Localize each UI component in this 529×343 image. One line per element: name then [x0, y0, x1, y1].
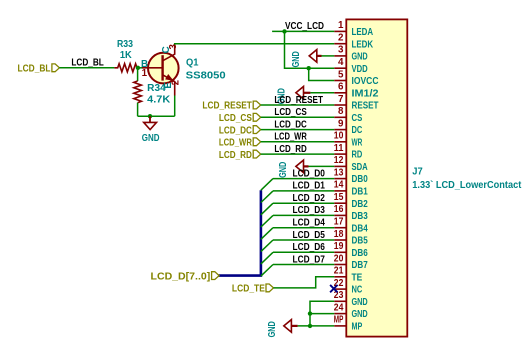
wire R34 to rail	[137, 103, 139, 117]
wire GND arrow to pin 6	[310, 92, 334, 94]
svg-text:GND: GND	[267, 321, 278, 337]
svg-text:GND: GND	[278, 162, 289, 178]
svg-text:RD: RD	[352, 150, 363, 161]
transistor Q1 body circle	[148, 53, 179, 84]
wire LCD_DC to pin 9	[261, 129, 335, 131]
svg-text:TE: TE	[352, 272, 363, 283]
Q1 base pin	[142, 67, 163, 69]
svg-text:12: 12	[334, 155, 344, 166]
svg-text:GND: GND	[352, 52, 368, 63]
power symbol GND (pin 12)	[296, 160, 304, 173]
svg-text:RESET: RESET	[352, 101, 379, 112]
svg-text:DB2: DB2	[352, 199, 369, 210]
svg-text:DB7: DB7	[352, 260, 369, 271]
svg-text:23: 23	[334, 290, 344, 301]
pin 24 (GND) stub	[334, 313, 346, 315]
power symbol GND (bottom left)	[284, 320, 292, 333]
svg-text:LCD_D4: LCD_D4	[293, 218, 326, 229]
svg-text:LCD_CS: LCD_CS	[219, 113, 252, 124]
wire pin 23	[310, 301, 334, 326]
wire base node down to R34	[137, 68, 139, 81]
bus entry LCD_D6	[261, 252, 273, 264]
svg-text:5: 5	[338, 69, 344, 80]
svg-text:MP: MP	[334, 315, 344, 326]
pin 23 (GND) stub	[334, 300, 346, 302]
wire LCD_D0 to pin 13	[273, 178, 334, 180]
svg-text:19: 19	[334, 241, 344, 252]
pin 9 (DC) stub	[334, 129, 346, 131]
svg-text:15: 15	[334, 192, 344, 203]
power symbol GND (below Q1)	[149, 116, 151, 122]
svg-text:LEDA: LEDA	[352, 27, 374, 38]
junction base node	[136, 66, 140, 70]
wire VCC drop to pin 4	[285, 31, 335, 68]
pin 11 (RD) stub	[334, 153, 346, 155]
svg-text:LCD_TE: LCD_TE	[232, 284, 265, 295]
svg-text:3: 3	[168, 44, 179, 50]
pin 5 (IOVCC) stub	[334, 80, 346, 82]
svg-text:18: 18	[334, 229, 344, 240]
svg-text:LCD_RD: LCD_RD	[274, 144, 306, 155]
Q1 emitter arrow	[165, 74, 174, 81]
svg-text:LCD_RESET: LCD_RESET	[274, 95, 323, 106]
svg-text:GND: GND	[291, 51, 302, 67]
wire LCD_D5 to pin 18	[273, 239, 334, 241]
wire LCD_TE to pin 21	[274, 277, 335, 288]
wire LCD_RESET to pin 7	[261, 104, 335, 106]
svg-text:LCD_D6: LCD_D6	[293, 242, 326, 253]
svg-text:DB5: DB5	[352, 236, 369, 247]
svg-text:LCD_WR: LCD_WR	[219, 138, 252, 149]
wire LCD_D2 to pin 15	[273, 202, 334, 204]
svg-text:GND: GND	[352, 297, 368, 308]
svg-text:IM1/2: IM1/2	[352, 88, 380, 99]
svg-text:Q1: Q1	[186, 58, 199, 69]
svg-text:LCD_D0: LCD_D0	[293, 168, 326, 179]
svg-text:LCD_RESET: LCD_RESET	[202, 101, 252, 112]
wire VCC_LCD to pin 1	[272, 30, 334, 32]
svg-text:LCD_D3: LCD_D3	[293, 205, 326, 216]
pin 10 (WR) stub	[334, 141, 346, 143]
svg-text:LCD_DC: LCD_DC	[274, 119, 306, 130]
junction MP	[308, 324, 312, 328]
bus entry LCD_D7	[261, 265, 273, 277]
svg-text:SS8050: SS8050	[186, 71, 227, 82]
wire LCD_D7 to pin 20	[273, 264, 334, 266]
svg-text:1: 1	[142, 68, 148, 79]
pin 4 (VDD) stub	[334, 67, 346, 69]
svg-text:10: 10	[334, 131, 344, 142]
svg-text:DB0: DB0	[352, 174, 369, 185]
wire LCD_RD to pin 11	[261, 153, 335, 155]
pin 14 (DB1) stub	[334, 190, 346, 192]
svg-text:6: 6	[338, 82, 344, 93]
svg-text:LCD_DC: LCD_DC	[219, 125, 252, 136]
svg-text:4: 4	[338, 57, 344, 68]
svg-text:LCD_D2: LCD_D2	[293, 193, 326, 204]
svg-text:SDA: SDA	[352, 162, 368, 173]
wire base node to Q1	[138, 67, 142, 69]
power symbol GND (pin 3)	[309, 50, 317, 63]
svg-text:13: 13	[334, 167, 344, 178]
svg-text:DB3: DB3	[352, 211, 369, 222]
svg-text:9: 9	[338, 118, 344, 129]
wire pin 24	[310, 313, 334, 315]
Q1 collector line	[163, 45, 175, 61]
svg-text:1: 1	[338, 20, 344, 31]
svg-text:LEDK: LEDK	[352, 39, 374, 50]
wire collector to pin 2	[175, 44, 335, 47]
svg-text:CS: CS	[352, 113, 363, 124]
svg-text:LCD_D7: LCD_D7	[293, 254, 326, 265]
wire GND arrow to pin 12	[309, 165, 335, 167]
connector J7 body	[346, 19, 407, 336]
junction VCC node	[282, 29, 286, 33]
svg-text:J7: J7	[412, 167, 423, 178]
junction ground rail	[148, 114, 152, 118]
svg-text:LCD_D5: LCD_D5	[293, 230, 326, 241]
svg-text:DB6: DB6	[352, 248, 369, 259]
svg-text:LCD_RD: LCD_RD	[219, 150, 252, 161]
svg-text:1.33` LCD_LowerContact: 1.33` LCD_LowerContact	[412, 180, 522, 191]
svg-text:3: 3	[338, 45, 344, 56]
svg-text:20: 20	[334, 253, 344, 264]
svg-text:LCD_CS: LCD_CS	[274, 107, 307, 118]
svg-text:14: 14	[334, 180, 344, 191]
svg-text:16: 16	[334, 204, 344, 215]
bus entry LCD_D4	[261, 228, 273, 240]
svg-text:7: 7	[338, 94, 344, 105]
wire LCD_CS to pin 8	[261, 116, 335, 118]
pin 12 (SDA) stub	[334, 165, 346, 167]
no-connect X at pin 22	[330, 285, 337, 292]
bus entry LCD_D1	[261, 191, 273, 203]
svg-text:VCC_LCD: VCC_LCD	[285, 21, 324, 32]
svg-text:21: 21	[334, 266, 344, 277]
bus entry LCD_D5	[261, 240, 273, 252]
svg-text:8: 8	[338, 106, 344, 117]
junction pin4 node	[307, 66, 311, 70]
svg-text:LCD_D[7..0]: LCD_D[7..0]	[151, 271, 211, 282]
svg-text:GND: GND	[142, 133, 160, 144]
pin 1 (LEDA) stub	[334, 30, 346, 32]
resistor R34	[134, 81, 142, 103]
wire pin MP	[298, 325, 335, 327]
junction pin 24	[308, 311, 312, 315]
pin 19 (DB6) stub	[334, 251, 346, 253]
svg-text:LCD_BL: LCD_BL	[71, 58, 103, 69]
svg-text:MP: MP	[352, 322, 363, 333]
pin 20 (DB7) stub	[334, 264, 346, 266]
svg-text:2: 2	[170, 79, 181, 85]
pin 8 (CS) stub	[334, 116, 346, 118]
svg-text:DC: DC	[352, 125, 363, 136]
svg-text:11: 11	[334, 143, 344, 154]
power symbol GND (pin 6)	[296, 87, 304, 100]
wire LCD_D1 to pin 14	[273, 190, 334, 192]
pin 21 (TE) stub	[334, 276, 346, 278]
pin 6 (IM1/2) stub	[334, 92, 346, 94]
pin 17 (DB4) stub	[334, 227, 346, 229]
svg-text:VDD: VDD	[352, 64, 368, 75]
pin MP (MP) stub	[334, 325, 346, 327]
svg-text:LCD_WR: LCD_WR	[274, 132, 306, 143]
wire LCD_BL to R33	[59, 67, 114, 69]
svg-text:24: 24	[334, 302, 344, 313]
svg-text:LCD_D1: LCD_D1	[293, 181, 326, 192]
wire emitter down	[174, 96, 176, 117]
pin 13 (DB0) stub	[334, 178, 346, 180]
bus LCD_D[7..0]	[218, 190, 261, 275]
Q1 base bar	[161, 55, 163, 80]
bus entry LCD_D2	[261, 203, 273, 215]
pin 7 (RESET) stub	[334, 104, 346, 106]
svg-text:DB4: DB4	[352, 223, 369, 234]
pin 2 (LEDK) stub	[334, 43, 346, 45]
bus entry LCD_D0	[261, 179, 273, 191]
svg-text:WR: WR	[352, 137, 363, 148]
svg-text:2: 2	[338, 33, 344, 44]
svg-text:R33: R33	[117, 39, 133, 50]
svg-text:1K: 1K	[120, 50, 132, 61]
resistor R33	[114, 64, 137, 72]
svg-text:IOVCC: IOVCC	[352, 76, 379, 87]
svg-text:LCD_BL: LCD_BL	[18, 63, 51, 74]
wire LCD_WR to pin 10	[261, 141, 335, 143]
wire ground rail	[138, 115, 175, 117]
wire pin4 node to pin 5	[309, 68, 335, 80]
pin 22 (NC) stub	[334, 288, 346, 290]
pin 16 (DB3) stub	[334, 214, 346, 216]
svg-text:NC: NC	[352, 285, 363, 296]
svg-text:DB1: DB1	[352, 187, 369, 198]
wire GND arrow to pin 3	[322, 55, 335, 57]
svg-text:GND: GND	[352, 309, 368, 320]
Q1 emitter line	[163, 75, 175, 96]
bus entry LCD_D3	[261, 215, 273, 227]
pin 18 (DB5) stub	[334, 239, 346, 241]
wire LCD_D6 to pin 19	[273, 251, 334, 253]
svg-text:4.7K: 4.7K	[147, 94, 170, 105]
svg-text:17: 17	[334, 217, 344, 228]
pin 3 (GND) stub	[334, 55, 346, 57]
wire LCD_D4 to pin 17	[273, 227, 334, 229]
pin 15 (DB2) stub	[334, 202, 346, 204]
wire LCD_D3 to pin 16	[273, 214, 334, 216]
